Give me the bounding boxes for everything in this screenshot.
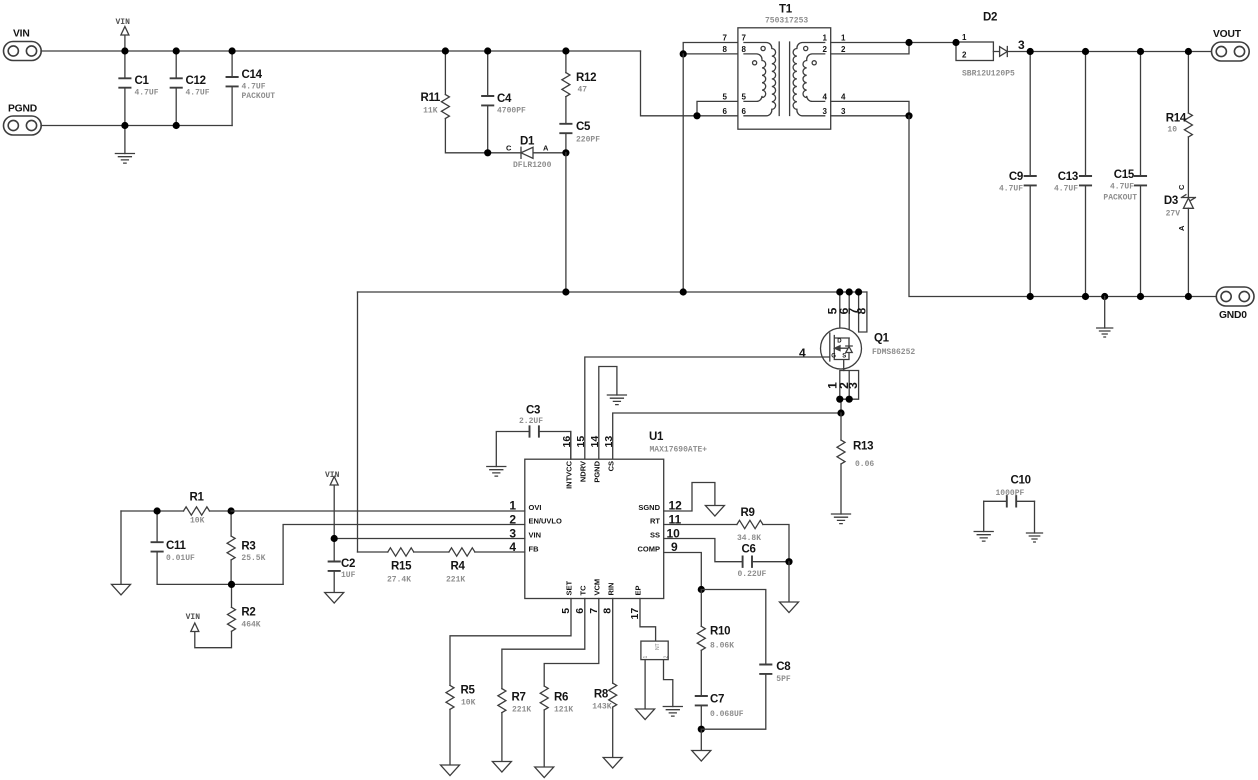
svg-text:C4: C4 (497, 93, 512, 105)
ground R9 C6 (780, 602, 799, 613)
svg-text:6: 6 (723, 107, 728, 116)
svg-text:COMP: COMP (638, 545, 661, 554)
svg-text:FB: FB (529, 544, 540, 553)
power flag VIN at C2 (325, 471, 340, 562)
ground PGND input (115, 126, 134, 164)
svg-text:R13: R13 (853, 441, 873, 453)
T1 pin numbers outside (723, 34, 846, 117)
svg-text:OVI: OVI (529, 503, 542, 512)
wire EN/UVLO line 2 (283, 525, 525, 585)
resistor R2 (195, 584, 261, 647)
connector J GND0 (1216, 287, 1254, 321)
svg-text:17: 17 (629, 608, 641, 620)
capacitor C2 (329, 558, 356, 593)
zener diode D3 (1164, 184, 1196, 297)
wire drain bus (358, 291, 867, 293)
wire VIN top rail (41, 50, 641, 52)
capacitor C12 (171, 51, 210, 126)
IC U1 MAX17690ATE+ (509, 431, 707, 620)
svg-text:1: 1 (643, 656, 649, 659)
svg-text:R11: R11 (420, 92, 440, 104)
T1 phase dot winding 2-4 (812, 61, 816, 65)
svg-text:7: 7 (588, 608, 600, 614)
svg-text:SBR12U120P5: SBR12U120P5 (962, 70, 1015, 79)
ground net tie right (663, 707, 682, 717)
wire OVI line 1 (231, 510, 525, 512)
power flag VIN at R2 (186, 613, 201, 632)
junction COMP node (698, 586, 705, 593)
svg-text:0.22UF: 0.22UF (738, 570, 767, 579)
svg-text:C12: C12 (186, 75, 206, 87)
T1 primary winding pins 7-6 (744, 43, 776, 116)
svg-text:SS: SS (650, 531, 660, 540)
svg-text:750317253: 750317253 (765, 17, 808, 26)
svg-text:464K: 464K (241, 621, 260, 630)
svg-text:0.06: 0.06 (855, 460, 874, 469)
wire CS line to source (613, 413, 841, 459)
svg-text:R6: R6 (554, 692, 568, 704)
svg-text:VIN: VIN (13, 29, 30, 40)
junction GND0 rail at D3 (1185, 293, 1192, 300)
svg-text:C11: C11 (166, 540, 186, 552)
capacitor C10 (984, 475, 1035, 534)
capacitor C15 (1103, 52, 1146, 297)
junction VOUT rail at C9 (1027, 48, 1034, 55)
svg-text:16: 16 (561, 436, 573, 448)
svg-text:0.01UF: 0.01UF (166, 554, 195, 563)
junction D2 anode (952, 39, 959, 46)
connector J PGND (4, 104, 42, 136)
svg-text:121K: 121K (554, 706, 573, 715)
svg-text:4.7UF: 4.7UF (1054, 185, 1078, 194)
svg-text:4: 4 (841, 93, 846, 102)
svg-text:6: 6 (742, 107, 747, 116)
svg-text:1: 1 (823, 34, 828, 43)
junction T1 pins 1 2 (905, 39, 912, 46)
svg-text:C15: C15 (1114, 169, 1135, 181)
wire VIN line 3 (334, 538, 525, 540)
junction R3 R2 C11 node (228, 581, 235, 588)
junction Q1 pin2 source (846, 396, 853, 403)
ground C10 left (974, 532, 993, 542)
junction PGND rail at C1 (121, 122, 128, 129)
wire T1 pin 2 (831, 43, 909, 54)
junction VIN rail at C12 (173, 47, 180, 54)
resistor R7 (498, 689, 532, 762)
svg-text:PACKOUT: PACKOUT (242, 92, 276, 101)
T1 pin numbers inside (742, 34, 828, 117)
junction C7 bottom node (698, 726, 705, 733)
wire T1 pin 1 to D2 (831, 42, 956, 44)
svg-text:PGND: PGND (8, 104, 37, 115)
svg-text:2: 2 (823, 45, 828, 54)
svg-text:8: 8 (742, 45, 747, 54)
svg-text:VIN: VIN (116, 18, 131, 27)
capacitor C1 (119, 51, 158, 126)
svg-text:C1: C1 (135, 75, 150, 87)
resistor R11 (420, 51, 487, 153)
junction GND0 rail at C13 (1082, 293, 1089, 300)
svg-text:TC: TC (578, 585, 587, 596)
junction top rail at R12 (562, 47, 569, 54)
wire T1 primary to drain bus (682, 54, 684, 292)
svg-text:14: 14 (589, 436, 601, 448)
svg-text:Q1: Q1 (874, 333, 890, 345)
svg-text:C10: C10 (1011, 475, 1031, 487)
resistor R6 (540, 686, 573, 767)
svg-text:1000PF: 1000PF (996, 489, 1025, 498)
svg-text:INTVCC: INTVCC (564, 460, 573, 489)
junction drain bus Q1 pin6 (846, 288, 853, 295)
junction GND0 rail at C9 (1027, 293, 1034, 300)
svg-text:PACKOUT: PACKOUT (1103, 194, 1137, 203)
svg-text:4.7UF: 4.7UF (135, 89, 159, 98)
svg-text:C6: C6 (742, 544, 756, 556)
svg-text:R4: R4 (451, 561, 466, 573)
wire SGND pin 12 (664, 483, 715, 512)
svg-text:VIN: VIN (186, 613, 201, 622)
ground SGND (705, 506, 724, 517)
svg-text:R15: R15 (391, 561, 412, 573)
svg-text:VIN: VIN (325, 471, 340, 480)
capacitor C8 (701, 590, 791, 730)
wire T1 pin 4 (831, 101, 909, 115)
svg-text:10K: 10K (190, 517, 205, 526)
svg-text:SET: SET (564, 580, 573, 595)
svg-text:R5: R5 (461, 685, 476, 697)
wire TC pin 6 to R7 (502, 599, 585, 689)
resistor R12 (562, 51, 596, 124)
svg-text:4.7UF: 4.7UF (1110, 183, 1134, 192)
junction T1 pins 5 6 (693, 112, 700, 119)
junction top rail at R11 (442, 47, 449, 54)
svg-text:C9: C9 (1009, 171, 1023, 183)
svg-text:27.4K: 27.4K (387, 576, 411, 585)
svg-text:13: 13 (603, 436, 615, 448)
svg-text:U1: U1 (649, 431, 664, 443)
svg-text:2.2UF: 2.2UF (519, 417, 543, 426)
resistor R8 (592, 683, 616, 757)
ground R6 (535, 767, 554, 778)
wire secondary return to GND0 rail (909, 116, 1216, 297)
capacitor C7 (696, 694, 744, 730)
svg-text:R10: R10 (710, 626, 730, 638)
wire T1 pin 7 (683, 43, 738, 54)
junction VIN line at C2 (331, 535, 338, 542)
ground C2 (325, 593, 344, 604)
svg-text:220PF: 220PF (576, 136, 600, 145)
wire VCM pin 7 to R6 (544, 599, 599, 687)
junction VOUT rail at C13 (1082, 48, 1089, 55)
svg-text:R8: R8 (594, 689, 609, 701)
U1 top pin stub INTVCC (570, 432, 572, 460)
ground PGND pin (607, 395, 626, 405)
T1 secondary winding pins 2-4 (803, 54, 825, 102)
ground GND0 rail (1097, 297, 1113, 338)
svg-text:6: 6 (574, 608, 586, 614)
wire R9 C6 node to ground (788, 562, 790, 602)
svg-text:C: C (1177, 184, 1186, 190)
svg-text:4.7UF: 4.7UF (186, 89, 210, 98)
svg-text:A: A (543, 144, 549, 153)
svg-text:5PF: 5PF (776, 675, 791, 684)
svg-text:VOUT: VOUT (1213, 29, 1242, 40)
T1 phase dot winding 7-6 (761, 46, 765, 50)
ground R5 (441, 765, 460, 776)
T1 primary winding pins 8-5 (744, 54, 766, 102)
svg-text:4: 4 (823, 93, 828, 102)
svg-text:5: 5 (742, 93, 747, 102)
ground R7 (492, 762, 511, 773)
junction drain bus at snubber (562, 288, 569, 295)
svg-text:2: 2 (962, 51, 967, 60)
diode D1 (488, 136, 566, 171)
svg-text:R1: R1 (190, 492, 205, 504)
T1 phase dot winding 8-5 (753, 61, 757, 65)
svg-text:C14: C14 (242, 69, 263, 81)
svg-text:S: S (842, 354, 846, 360)
svg-text:2: 2 (841, 45, 846, 54)
diode D2 (956, 12, 1030, 79)
ground C10 right (1027, 533, 1043, 542)
svg-text:8: 8 (723, 45, 728, 54)
capacitor C9 (999, 52, 1036, 297)
svg-text:RT: RT (650, 517, 660, 526)
svg-text:DFLR1200: DFLR1200 (513, 161, 552, 170)
svg-text:C13: C13 (1058, 171, 1078, 183)
svg-text:EN/UVLO: EN/UVLO (529, 517, 563, 526)
transistor Q1 (821, 288, 916, 413)
transformer T1 (723, 4, 846, 130)
capacitor C6 (664, 539, 789, 580)
svg-text:FDMS86252: FDMS86252 (872, 348, 915, 357)
svg-text:EP: EP (634, 585, 643, 595)
svg-text:7: 7 (723, 34, 728, 43)
resistor R13 (837, 413, 874, 514)
svg-text:R7: R7 (512, 692, 526, 704)
wire T1 pin 8 (683, 53, 738, 55)
svg-text:10K: 10K (461, 699, 476, 708)
T1 core (779, 42, 789, 116)
svg-text:GND0: GND0 (1219, 310, 1247, 321)
svg-text:10: 10 (1167, 126, 1177, 135)
wire COMP node to ground (700, 729, 702, 750)
wire feedback tap down to FB line (357, 292, 359, 552)
junction T1 pins 7 8 (680, 50, 687, 57)
capacitor C13 (1054, 52, 1091, 297)
T1 secondary winding pins 1-3 (793, 43, 825, 116)
junction T1 pins 3 4 (905, 112, 912, 119)
wire snubber node down to drain bus (565, 153, 567, 292)
ground R1 left (112, 584, 131, 595)
svg-text:2: 2 (664, 656, 670, 659)
junction Q1 pin1 source (836, 396, 843, 403)
wire PGND pin to ground (599, 367, 617, 460)
svg-text:SGND: SGND (638, 503, 660, 512)
svg-text:C: C (506, 144, 512, 153)
junction OVI line at C11 (154, 507, 161, 514)
wire VOUT rail (1030, 51, 1211, 53)
capacitor C11 (152, 511, 284, 584)
junction drain bus Q1 pin7 (855, 288, 862, 295)
wire T1 pin 3 (831, 115, 909, 117)
capacitor C4 (482, 51, 526, 153)
svg-text:C2: C2 (341, 558, 355, 570)
svg-text:5: 5 (723, 93, 728, 102)
junction VOUT rail at C15 (1137, 48, 1144, 55)
svg-text:RIN: RIN (606, 583, 615, 596)
junction source sense node (837, 409, 844, 416)
wire SET pin 5 to R5 (450, 599, 571, 686)
wire R1 left to ground (120, 511, 122, 584)
resistor R15 (358, 548, 414, 585)
svg-text:R14: R14 (1166, 113, 1187, 125)
svg-text:1: 1 (962, 33, 967, 42)
power flag VIN top (116, 18, 131, 51)
svg-text:D: D (837, 339, 842, 345)
junction drain bus at T1 primary (680, 288, 687, 295)
wire COMP pin 9 (664, 553, 702, 590)
wire T1 pin 6 (697, 115, 738, 117)
svg-text:8.06K: 8.06K (710, 642, 734, 651)
wire RIN pin 8 to R8 (612, 599, 614, 684)
svg-text:R9: R9 (741, 507, 755, 519)
resistor R14 (1166, 52, 1193, 198)
resistor R3 (227, 511, 266, 584)
svg-text:D3: D3 (1164, 195, 1178, 207)
connector J VIN (4, 29, 42, 61)
svg-text:R12: R12 (576, 72, 596, 84)
svg-text:25.5K: 25.5K (241, 554, 265, 563)
capacitor C14 (227, 51, 276, 126)
T1 phase dot winding 1-3 (804, 46, 808, 50)
svg-text:3: 3 (1018, 38, 1025, 52)
junction VIN rail at C1 (121, 47, 128, 54)
ground COMP network (692, 751, 711, 762)
resistor R9 (664, 507, 789, 562)
svg-text:4: 4 (799, 346, 806, 360)
resistor R10 (697, 590, 734, 697)
svg-text:221K: 221K (512, 706, 531, 715)
U1 pin numbers (509, 436, 682, 620)
svg-text:C3: C3 (526, 405, 540, 417)
junction PGND rail at C12 (173, 122, 180, 129)
junction drain bus Q1 pin5 (836, 288, 843, 295)
junction GND0 rail at C15 (1137, 293, 1144, 300)
connector J VOUT (1212, 29, 1250, 61)
junction VIN rail at C14 (229, 47, 236, 54)
svg-text:C8: C8 (776, 661, 791, 673)
net tie NT1 (641, 641, 670, 660)
svg-text:34.8K: 34.8K (737, 534, 761, 543)
junction R9 C6 node (785, 558, 792, 565)
junction node C4 D1 (484, 149, 491, 156)
ground net tie left (636, 709, 655, 720)
svg-text:27V: 27V (1166, 210, 1181, 219)
wire net tie pin to earth ground (664, 660, 673, 707)
Q1 drain pins 5 6 7 8 (840, 292, 867, 338)
svg-text:221K: 221K (446, 576, 465, 585)
svg-text:NDRV: NDRV (578, 461, 587, 482)
svg-text:D2: D2 (983, 12, 997, 24)
junction top rail at C4 (484, 47, 491, 54)
wire PGND rail (41, 125, 232, 127)
wire NDRV to Q1 gate (585, 357, 830, 459)
resistor R1 (121, 492, 231, 526)
svg-text:R3: R3 (241, 541, 255, 553)
svg-text:G: G (831, 354, 836, 360)
svg-text:8: 8 (855, 307, 869, 314)
svg-text:A: A (1177, 225, 1186, 231)
junction OVI line at R3 (228, 507, 235, 514)
svg-text:MAX17690ATE+: MAX17690ATE+ (650, 446, 708, 455)
svg-text:143K: 143K (592, 703, 611, 712)
wire T1 pin 5 (697, 101, 738, 115)
svg-text:C7: C7 (710, 694, 724, 706)
capacitor C5 (560, 121, 600, 153)
svg-text:3: 3 (841, 107, 846, 116)
svg-text:PGND: PGND (592, 460, 601, 482)
wire net tie pin to ground (644, 660, 646, 709)
svg-text:7: 7 (742, 34, 747, 43)
wire EP pin 17 to net tie (640, 599, 656, 642)
svg-text:3: 3 (823, 107, 828, 116)
Q1 mosfet symbol (830, 333, 852, 371)
svg-text:0.068UF: 0.068UF (710, 710, 744, 719)
junction node C5 D1 (562, 149, 569, 156)
ground R13 (832, 514, 851, 524)
svg-text:C5: C5 (576, 121, 591, 133)
svg-text:VCM: VCM (592, 579, 601, 596)
wire VIN rail drop to T1 pins 5 6 (641, 51, 698, 116)
svg-text:11K: 11K (423, 107, 438, 116)
svg-text:D1: D1 (520, 136, 535, 148)
Q1 source pins 1 2 3 (840, 371, 859, 414)
svg-text:4.7UF: 4.7UF (242, 83, 266, 92)
svg-text:47: 47 (578, 86, 588, 95)
svg-text:3: 3 (846, 382, 860, 389)
resistor R5 (446, 685, 476, 766)
junction GND0 rail at ground (1101, 293, 1108, 300)
svg-text:8: 8 (602, 608, 614, 614)
svg-text:1UF: 1UF (341, 571, 356, 580)
svg-text:5: 5 (560, 608, 572, 614)
svg-text:T1: T1 (779, 4, 793, 16)
svg-text:1: 1 (841, 34, 846, 43)
ground R8 (603, 758, 622, 769)
Q1 body circle (821, 328, 862, 369)
svg-text:R2: R2 (241, 607, 255, 619)
U1 pin names (529, 460, 661, 595)
junction VOUT rail at R14 (1185, 48, 1192, 55)
capacitor C3 (496, 405, 571, 467)
svg-text:4700PF: 4700PF (497, 107, 526, 116)
svg-text:NT: NT (655, 643, 661, 650)
ground C3 (487, 467, 506, 477)
svg-text:15: 15 (575, 436, 587, 448)
svg-text:VIN: VIN (529, 531, 542, 540)
svg-text:CS: CS (606, 461, 615, 471)
resistor R4 (414, 548, 525, 585)
svg-text:4.7UF: 4.7UF (999, 185, 1023, 194)
